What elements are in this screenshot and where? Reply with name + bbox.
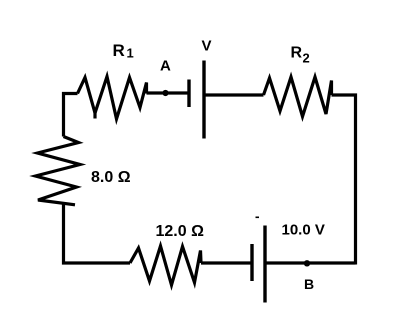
svg-text:B: B — [304, 276, 314, 292]
battery V long plate — [202, 61, 205, 139]
resistor R1 — [78, 77, 147, 120]
battery 10.0 V long plate — [263, 226, 266, 303]
wire R2 to top-right corner — [332, 95, 356, 265]
svg-text:2: 2 — [303, 51, 310, 66]
resistor 8.0 ohm — [36, 137, 81, 205]
node A — [162, 90, 168, 96]
wire battery V to R2 — [204, 93, 264, 96]
svg-text:10.0 V: 10.0 V — [282, 222, 325, 239]
svg-text:R: R — [291, 45, 303, 62]
svg-text:12.0 Ω: 12.0 Ω — [156, 223, 205, 240]
resistor 12.0 ohm — [130, 246, 201, 285]
node B — [304, 260, 310, 266]
wire bottom-right from node B region to corner — [266, 261, 356, 264]
wire bottom-left — [64, 204, 131, 263]
battery 10.0 V short plate — [250, 244, 253, 281]
svg-text:V: V — [202, 38, 212, 55]
svg-text:R: R — [113, 41, 125, 60]
battery polarity tick — [256, 217, 260, 219]
svg-text:1: 1 — [127, 46, 134, 61]
svg-text:8.0 Ω: 8.0 Ω — [91, 169, 131, 186]
resistor R2 — [264, 77, 332, 117]
battery V short plate — [187, 80, 190, 108]
resistor R1 valley spur — [93, 112, 96, 119]
wire top-left corner and left vertical (top segment) — [64, 94, 78, 137]
wire 12 ohm resistor to battery — [201, 261, 251, 264]
svg-text:A: A — [160, 58, 171, 75]
wire R1 to battery V — [147, 91, 189, 94]
